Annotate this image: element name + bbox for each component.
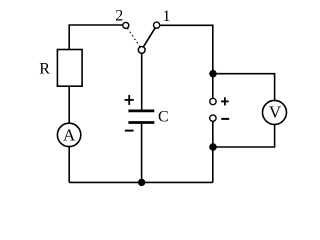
wire voltmeter branch bottom (V down, left to junction) — [213, 124, 275, 147]
wire middle branch (switch pivot down to capacitor top plate) — [141, 53, 143, 110]
terminal circle plus — [210, 98, 216, 104]
svg-text:R: R — [39, 60, 50, 77]
switch contact 2 circle — [123, 22, 129, 28]
junction dot bottom-right — [209, 143, 217, 151]
resistor R box — [57, 50, 82, 87]
junction dot bottom-middle — [138, 179, 145, 186]
wire bottom horizontal — [69, 181, 213, 183]
svg-text:1: 1 — [163, 8, 171, 25]
voltmeter V circle — [263, 100, 287, 124]
wire top-left horizontal (corner to switch contact 2) — [69, 25, 123, 50]
ammeter A circle — [57, 123, 80, 146]
wire voltmeter branch top (junction right and down to V) — [213, 74, 275, 101]
svg-text:A: A — [63, 126, 76, 145]
capacitor minus sign — [125, 130, 134, 132]
junction dot top-right — [209, 70, 217, 78]
wire right vertical between terminals gap bottom to bottom corner — [212, 122, 214, 182]
terminal plus sign — [221, 97, 229, 105]
terminal circle minus — [210, 115, 216, 121]
wire left vertical (R bottom to A top) — [68, 86, 70, 123]
switch pivot circle — [138, 47, 145, 54]
wire top-right horizontal (switch contact 1 to top-right corner, down right side) — [160, 25, 213, 97]
switch contact 1 circle — [154, 22, 160, 28]
switch dashed blade (open position to contact 2) — [127, 28, 140, 47]
switch blade (closed to contact 1) — [143, 28, 155, 47]
capacitor plus sign — [125, 95, 134, 105]
capacitor C plates — [128, 111, 154, 123]
wire middle branch (capacitor bottom plate to bottom junction) — [141, 124, 143, 183]
wire left vertical (A bottom to bottom-left corner) — [68, 147, 70, 183]
svg-text:2: 2 — [115, 7, 123, 24]
svg-text:V: V — [269, 103, 282, 122]
terminal minus sign — [221, 118, 229, 120]
svg-text:C: C — [158, 108, 169, 125]
